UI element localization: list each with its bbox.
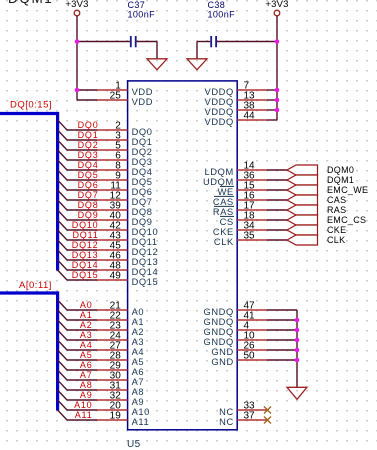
pin 24 A3 bbox=[97, 331, 144, 347]
svg-text:A11: A11 bbox=[132, 417, 150, 427]
svg-text:DQ12: DQ12 bbox=[132, 247, 159, 257]
junction: left rail / C37 bbox=[75, 39, 80, 44]
wire: bus branch DQ2 bbox=[58, 140, 97, 150]
svg-text:GNDQ: GNDQ bbox=[204, 327, 234, 337]
pin 47 GNDQ bbox=[204, 301, 267, 317]
wire: bus branch A7 bbox=[58, 370, 97, 380]
junction: ground rail bbox=[295, 348, 300, 353]
power +3V3 (left) bbox=[65, 0, 88, 16]
pin 43 DQ11 bbox=[97, 231, 158, 247]
svg-text:A10: A10 bbox=[74, 400, 92, 410]
svg-text:37: 37 bbox=[244, 411, 256, 422]
wire: bus branch DQ10 bbox=[58, 220, 97, 230]
wire: bus branch A9 bbox=[58, 390, 97, 400]
junction: ground rail bbox=[295, 358, 300, 363]
net label DQ6 bbox=[78, 180, 99, 190]
wire: bus branch DQ3 bbox=[58, 150, 97, 160]
net label DQ2 bbox=[78, 140, 99, 150]
pin 4 GNDQ bbox=[204, 321, 267, 337]
svg-text:DQ5: DQ5 bbox=[132, 177, 153, 187]
pin 50 GND bbox=[211, 351, 267, 367]
wire: +3V3 to C37 left plate bbox=[77, 41, 130, 43]
net label A8 bbox=[80, 380, 93, 390]
pin 16 CAS bbox=[213, 191, 267, 207]
svg-text:RAS: RAS bbox=[327, 205, 346, 215]
wire: pin 4 to ground rail bbox=[267, 329, 297, 331]
wire: bus branch A4 bbox=[58, 340, 97, 350]
wire: bus branch A1 bbox=[58, 310, 97, 320]
power +3V3 (right) bbox=[265, 0, 288, 16]
svg-text:CS: CS bbox=[220, 217, 234, 227]
svg-text:DQ11: DQ11 bbox=[72, 230, 98, 240]
wire: bus branch A0 bbox=[58, 300, 97, 310]
svg-text:DQ8: DQ8 bbox=[78, 200, 99, 210]
pin 20 A10 bbox=[97, 401, 150, 417]
svg-text:A4: A4 bbox=[80, 340, 93, 350]
svg-text:A2: A2 bbox=[132, 327, 145, 337]
wire: bus branch DQ8 bbox=[58, 200, 97, 210]
net label DQ11 bbox=[72, 230, 98, 240]
wire: bus branch DQ1 bbox=[58, 130, 97, 140]
wire: bus branch A2 bbox=[58, 320, 97, 330]
net label A6 bbox=[80, 360, 93, 370]
wire: pin 44 to right rail bbox=[267, 119, 277, 121]
svg-text:A1: A1 bbox=[132, 317, 145, 327]
junction: right rail bbox=[275, 98, 280, 103]
net label DQ5 bbox=[78, 170, 99, 180]
pin 32 A9 bbox=[97, 391, 144, 407]
junction: right rail bbox=[275, 88, 280, 93]
svg-text:DQ14: DQ14 bbox=[72, 260, 99, 270]
junction: left rail / pin 1 bbox=[75, 88, 80, 93]
pin 29 A6 bbox=[97, 361, 144, 377]
svg-text:NC: NC bbox=[219, 407, 234, 417]
wire: bus branch A11 bbox=[58, 410, 97, 420]
net label A7 bbox=[80, 370, 93, 380]
net label DQ8 bbox=[78, 200, 99, 210]
net label A4 bbox=[80, 340, 93, 350]
svg-text:DQ12: DQ12 bbox=[72, 240, 99, 250]
wire: pin 15 to port EMC_WE bbox=[267, 189, 287, 191]
pin 23 A2 bbox=[97, 321, 144, 337]
svg-text:DQ1: DQ1 bbox=[132, 137, 153, 147]
wire: bus branch DQ9 bbox=[58, 210, 97, 220]
wire: rail to pin 25 bbox=[77, 99, 97, 101]
pin 46 DQ13 bbox=[97, 251, 158, 267]
port flag DQM1 bbox=[287, 175, 354, 185]
net label DQ13 bbox=[72, 250, 99, 260]
svg-text:100nF: 100nF bbox=[128, 9, 156, 19]
IC U5 body bbox=[128, 81, 238, 430]
net label DQ7 bbox=[78, 190, 99, 200]
net label A1 bbox=[80, 310, 93, 320]
junction: right rail / C38 bbox=[275, 39, 280, 44]
wire: pin 41 to ground rail bbox=[267, 319, 297, 321]
svg-text:CKE: CKE bbox=[213, 227, 234, 237]
svg-text:25: 25 bbox=[110, 91, 122, 102]
wire: C38 right plate to +3V3 rail bbox=[217, 41, 277, 43]
svg-text:A9: A9 bbox=[132, 397, 145, 407]
svg-text:DQ9: DQ9 bbox=[132, 217, 153, 227]
port flag CKE bbox=[287, 225, 346, 235]
svg-text:DQ15: DQ15 bbox=[72, 270, 99, 280]
net label DQ4 bbox=[78, 160, 99, 170]
svg-text:DQ7: DQ7 bbox=[78, 190, 99, 200]
svg-text:GND: GND bbox=[211, 347, 233, 357]
svg-text:LDQM: LDQM bbox=[205, 167, 234, 177]
junction: right rail bbox=[275, 108, 280, 113]
pin 25 VDD bbox=[97, 91, 153, 107]
wire: bus branch A8 bbox=[58, 380, 97, 390]
svg-text:DQ10: DQ10 bbox=[72, 220, 99, 230]
pin 49 DQ15 bbox=[97, 271, 158, 287]
svg-text:DQ0: DQ0 bbox=[78, 120, 99, 130]
svg-text:DQ3: DQ3 bbox=[78, 150, 99, 160]
svg-text:A8: A8 bbox=[132, 387, 145, 397]
pin 30 A7 bbox=[97, 371, 144, 387]
pin 14 LDQM bbox=[205, 161, 267, 177]
svg-text:EMC_WE: EMC_WE bbox=[327, 185, 368, 195]
pin 21 A0 bbox=[97, 301, 144, 317]
capacitor C38 100nF bbox=[208, 0, 236, 47]
wire: pin 16 to port CAS bbox=[267, 199, 287, 201]
pin 1 VDD bbox=[97, 81, 153, 97]
port flag EMC_CS bbox=[287, 215, 366, 225]
svg-text:A11: A11 bbox=[75, 410, 93, 420]
wire: bus branch A6 bbox=[58, 360, 97, 370]
svg-text:DQ8: DQ8 bbox=[132, 207, 153, 217]
wire: bus branch DQ4 bbox=[58, 160, 97, 170]
svg-text:NC: NC bbox=[219, 417, 234, 427]
pin 9 DQ5 bbox=[97, 171, 153, 187]
wire: bus branch A10 bbox=[58, 400, 97, 410]
net label A5 bbox=[80, 350, 93, 360]
wire: rail to pin 1 bbox=[77, 89, 97, 91]
wire: left +3V3 rail bbox=[76, 16, 78, 100]
pin 19 A11 bbox=[97, 411, 149, 427]
svg-text:A5: A5 bbox=[80, 350, 93, 360]
svg-text:GND: GND bbox=[211, 357, 233, 367]
svg-text:A0: A0 bbox=[80, 300, 93, 310]
wire: bus branch DQ6 bbox=[58, 180, 97, 190]
svg-text:+3V3: +3V3 bbox=[65, 0, 88, 10]
pin 22 A1 bbox=[97, 311, 144, 327]
pin 33 NC bbox=[219, 401, 267, 417]
net label DQ1 bbox=[78, 130, 99, 140]
wire: pin 36 to port DQM1 bbox=[267, 179, 287, 181]
wire: pin 50 to ground rail bbox=[267, 359, 297, 361]
svg-text:A5: A5 bbox=[132, 357, 145, 367]
pin 18 CS bbox=[220, 211, 267, 227]
svg-text:A[0:11]: A[0:11] bbox=[19, 280, 52, 291]
net label DQ0 bbox=[78, 120, 99, 130]
pin 27 A4 bbox=[97, 341, 144, 357]
wire: pin 26 to ground rail bbox=[267, 349, 297, 351]
wire: bus branch DQ7 bbox=[58, 190, 97, 200]
net label DQ9 bbox=[78, 210, 99, 220]
wire: pin 14 to port DQM0 bbox=[267, 169, 287, 171]
pin 37 NC bbox=[219, 411, 267, 427]
svg-text:A4: A4 bbox=[132, 347, 145, 357]
wire: bus branch DQ14 bbox=[58, 260, 97, 270]
net label A9 bbox=[80, 390, 93, 400]
port flag DQM0 bbox=[287, 165, 354, 175]
svg-text:DQ15: DQ15 bbox=[132, 277, 159, 287]
svg-text:CLK: CLK bbox=[214, 237, 234, 247]
svg-text:DQ13: DQ13 bbox=[72, 250, 99, 260]
svg-text:35: 35 bbox=[244, 231, 256, 242]
svg-text:RAS: RAS bbox=[213, 207, 234, 217]
junction: ground rail bbox=[295, 318, 300, 323]
wire: bus branch DQ0 bbox=[58, 120, 97, 130]
svg-text:WE: WE bbox=[218, 187, 234, 197]
wire: bus branch DQ5 bbox=[58, 170, 97, 180]
bus A[0:11] bbox=[0, 293, 58, 411]
svg-text:A2: A2 bbox=[80, 320, 93, 330]
svg-text:DQ14: DQ14 bbox=[132, 267, 159, 277]
pin 3 DQ1 bbox=[97, 131, 153, 147]
net label A3 bbox=[80, 330, 93, 340]
net label DQ10 bbox=[72, 220, 99, 230]
pin 5 DQ2 bbox=[97, 141, 153, 157]
svg-text:A9: A9 bbox=[80, 390, 93, 400]
pin 48 DQ14 bbox=[97, 261, 158, 277]
svg-text:100nF: 100nF bbox=[208, 9, 236, 19]
ground (C38 decoupling) bbox=[187, 59, 207, 70]
pin 10 GNDQ bbox=[204, 331, 267, 347]
port flag EMC_WE bbox=[287, 185, 368, 195]
wire: C37 right plate to ground bbox=[137, 42, 157, 59]
svg-text:DQ[0:15]: DQ[0:15] bbox=[10, 99, 52, 110]
reference designator U5 bbox=[127, 439, 141, 450]
port flag RAS bbox=[287, 205, 346, 215]
svg-text:DQ9: DQ9 bbox=[78, 210, 99, 220]
svg-text:A3: A3 bbox=[132, 337, 145, 347]
wire: bus branch DQ13 bbox=[58, 250, 97, 260]
bus label DQ[0:15] bbox=[10, 99, 52, 110]
pin 42 DQ10 bbox=[97, 221, 158, 237]
pin 11 DQ6 bbox=[97, 181, 153, 197]
svg-text:DQ6: DQ6 bbox=[132, 187, 153, 197]
pin 34 CKE bbox=[213, 221, 267, 237]
svg-text:A0: A0 bbox=[132, 307, 145, 317]
pin 7 VDDQ bbox=[205, 81, 267, 97]
svg-text:CLK: CLK bbox=[327, 235, 345, 245]
pin 40 DQ9 bbox=[97, 211, 153, 227]
pin 13 VDDQ bbox=[205, 91, 267, 107]
svg-text:19: 19 bbox=[110, 411, 122, 422]
pin 28 A5 bbox=[97, 351, 144, 367]
svg-text:GNDQ: GNDQ bbox=[204, 307, 234, 317]
net label A11 bbox=[75, 410, 93, 420]
pin 2 DQ0 bbox=[97, 121, 153, 137]
svg-text:CAS: CAS bbox=[327, 195, 346, 205]
wire: ground rail bbox=[296, 310, 298, 387]
svg-text:VDDQ: VDDQ bbox=[205, 87, 234, 97]
svg-text:DQM1: DQM1 bbox=[8, 0, 53, 6]
svg-text:CKE: CKE bbox=[327, 225, 346, 235]
pin 31 A8 bbox=[97, 381, 144, 397]
pin 26 GND bbox=[211, 341, 267, 357]
pin 6 DQ3 bbox=[97, 151, 153, 167]
svg-text:GNDQ: GNDQ bbox=[204, 337, 234, 347]
svg-text:DQ1: DQ1 bbox=[78, 130, 99, 140]
svg-text:44: 44 bbox=[244, 111, 256, 122]
svg-text:A6: A6 bbox=[80, 360, 93, 370]
pin 41 GNDQ bbox=[204, 311, 267, 327]
svg-text:DQ0: DQ0 bbox=[132, 127, 153, 137]
pin 36 UDQM bbox=[203, 171, 267, 187]
svg-text:DQ6: DQ6 bbox=[78, 180, 99, 190]
net label DQ3 bbox=[78, 150, 99, 160]
pin 35 CLK bbox=[214, 231, 267, 247]
no-connect X bbox=[264, 417, 271, 424]
wire: ground to C38 left plate bbox=[197, 42, 210, 59]
svg-text:VDD: VDD bbox=[132, 97, 153, 107]
svg-text:U5: U5 bbox=[127, 439, 141, 450]
wire: pin 13 to right rail bbox=[267, 99, 277, 101]
svg-text:DQM1: DQM1 bbox=[327, 175, 354, 185]
svg-text:GNDQ: GNDQ bbox=[204, 317, 234, 327]
svg-text:UDQM: UDQM bbox=[203, 177, 234, 187]
wire: bus branch DQ15 bbox=[58, 270, 97, 280]
junction: ground rail bbox=[295, 328, 300, 333]
svg-text:VDDQ: VDDQ bbox=[205, 117, 234, 127]
pin 15 WE bbox=[218, 181, 267, 197]
wire: bus branch DQ11 bbox=[58, 230, 97, 240]
capacitor C37 100nF bbox=[128, 0, 156, 47]
svg-text:DQ13: DQ13 bbox=[132, 257, 159, 267]
wire: right +3V3 rail bbox=[276, 16, 278, 120]
svg-text:DQ10: DQ10 bbox=[132, 227, 159, 237]
svg-text:EMC_CS: EMC_CS bbox=[327, 215, 366, 225]
svg-text:A7: A7 bbox=[132, 377, 145, 387]
svg-text:50: 50 bbox=[244, 351, 256, 362]
wire: bus branch A3 bbox=[58, 330, 97, 340]
svg-text:DQ4: DQ4 bbox=[132, 167, 153, 177]
ground (GND net) bbox=[287, 387, 307, 399]
svg-text:DQ11: DQ11 bbox=[132, 237, 158, 247]
pin 38 VDDQ bbox=[205, 101, 267, 117]
wire: pin 47 to ground rail bbox=[267, 309, 297, 311]
net label DQM1 (clipped at top edge) bbox=[8, 0, 53, 6]
svg-text:DQM0: DQM0 bbox=[327, 165, 354, 175]
bus DQ[0:15] bbox=[0, 114, 58, 271]
net label DQ14 bbox=[72, 260, 99, 270]
port flag CLK bbox=[287, 235, 345, 245]
svg-text:DQ7: DQ7 bbox=[132, 197, 153, 207]
svg-text:DQ2: DQ2 bbox=[78, 140, 99, 150]
wire: bus branch A5 bbox=[58, 350, 97, 360]
junction: ground rail bbox=[295, 338, 300, 343]
pin 17 RAS bbox=[213, 201, 267, 217]
wire: pin 34 to port CKE bbox=[267, 229, 287, 231]
svg-text:CAS: CAS bbox=[213, 197, 234, 207]
pin 8 DQ4 bbox=[97, 161, 153, 177]
wire: pin 38 to right rail bbox=[267, 109, 277, 111]
svg-text:A1: A1 bbox=[80, 310, 93, 320]
svg-text:A7: A7 bbox=[80, 370, 93, 380]
net label A10 bbox=[74, 400, 92, 410]
wire: pin 17 to port RAS bbox=[267, 209, 287, 211]
svg-text:DQ2: DQ2 bbox=[132, 147, 153, 157]
svg-text:49: 49 bbox=[110, 271, 122, 282]
svg-text:VDDQ: VDDQ bbox=[205, 97, 234, 107]
wire: pin 7 to right rail bbox=[267, 89, 277, 91]
no-connect X bbox=[264, 407, 271, 414]
svg-text:DQ3: DQ3 bbox=[132, 157, 153, 167]
bus label A[0:11] bbox=[19, 280, 52, 291]
pin 45 DQ12 bbox=[97, 241, 158, 257]
net label A0 bbox=[80, 300, 93, 310]
pin 39 DQ8 bbox=[97, 201, 153, 217]
svg-text:VDD: VDD bbox=[132, 87, 153, 97]
wire: bus branch DQ12 bbox=[58, 240, 97, 250]
pin 44 VDDQ bbox=[205, 111, 267, 127]
net label A2 bbox=[80, 320, 93, 330]
wire: pin 35 to port CLK bbox=[267, 239, 287, 241]
net label DQ15 bbox=[72, 270, 99, 280]
ground (C37 decoupling) bbox=[147, 59, 167, 70]
net label DQ12 bbox=[72, 240, 99, 250]
svg-text:DQ5: DQ5 bbox=[78, 170, 99, 180]
svg-text:VDDQ: VDDQ bbox=[205, 107, 234, 117]
svg-text:A8: A8 bbox=[80, 380, 93, 390]
wire: pin 10 to ground rail bbox=[267, 339, 297, 341]
svg-text:A6: A6 bbox=[132, 367, 145, 377]
svg-text:+3V3: +3V3 bbox=[265, 0, 288, 10]
wire: pin 18 to port EMC_CS bbox=[267, 219, 287, 221]
svg-text:A3: A3 bbox=[80, 330, 93, 340]
svg-text:DQ4: DQ4 bbox=[78, 160, 99, 170]
svg-text:A10: A10 bbox=[132, 407, 150, 417]
port flag CAS bbox=[287, 195, 346, 205]
pin 12 DQ7 bbox=[97, 191, 153, 207]
